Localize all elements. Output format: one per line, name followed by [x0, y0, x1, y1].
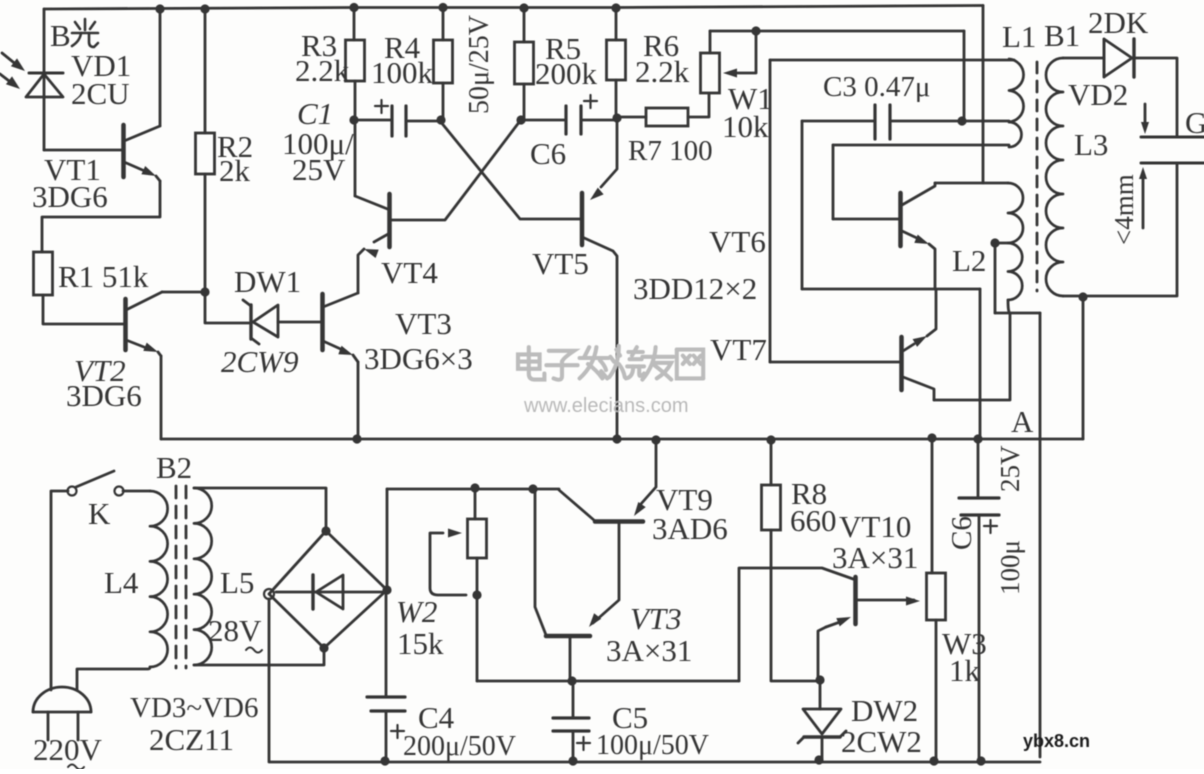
wire VT9 base line: [387, 488, 559, 491]
svg-text:2CU: 2CU: [71, 76, 130, 111]
node VT3 emitter on rail: [352, 434, 361, 443]
label C1: [297, 96, 333, 131]
svg-text:L4: L4: [104, 565, 139, 600]
wire L5 bottom to bridge: [194, 648, 324, 665]
node R2/VT2/DW1 junction: [200, 287, 209, 296]
label B-light: [50, 18, 98, 53]
label VT2: [74, 353, 126, 388]
label R6 value: [635, 54, 690, 89]
svg-text:220V: 220V: [33, 732, 103, 767]
label L3: [1074, 127, 1108, 162]
resistor R6 2.2k: [607, 40, 626, 80]
wire L5 top to bridge: [194, 487, 326, 490]
wire VT5 base cross-coupling to R4/C1 node: [440, 121, 582, 219]
node bridge right: [382, 585, 391, 594]
wire R4 to node: [442, 83, 445, 120]
potentiometer W2 15k: [468, 519, 487, 558]
label C5 value: [596, 730, 709, 761]
label C6 output rotated: [946, 516, 978, 550]
label W2: [396, 594, 437, 629]
capacitor C6 50u/25V: [521, 95, 616, 134]
wire emitters line down to output rail: [979, 289, 982, 439]
node R5/C6/VT4 junction: [516, 115, 525, 124]
capacitor C6 100u/25V output: [959, 439, 999, 761]
label VT3: [395, 306, 452, 341]
node L2 tap: [990, 238, 999, 247]
light arrow 1 into VD1: [2, 53, 25, 71]
transistor VT5: [582, 118, 617, 438]
wire bottom negative rail: [270, 761, 1040, 764]
svg-text:G: G: [1185, 105, 1204, 140]
transistor VT7 3DD12: [770, 290, 936, 400]
label VD2: [1068, 77, 1128, 112]
wire switch to L4: [123, 490, 150, 493]
label 2CW2: [841, 724, 922, 759]
wire plug left to switch: [51, 491, 68, 690]
wiper of W1: [723, 31, 756, 78]
svg-text:B1: B1: [1044, 18, 1080, 53]
node W1 wiper tie: [751, 26, 760, 35]
wire gap to L3 bottom: [1176, 163, 1179, 295]
svg-text:2CZ11: 2CZ11: [149, 722, 234, 757]
svg-text:1k: 1k: [949, 653, 981, 688]
wire R6 to node: [615, 80, 618, 117]
transistor VT10 3AX31: [818, 577, 920, 679]
label 4mm rotated: [1109, 174, 1139, 245]
capacitor C3 0.47u: [802, 105, 1009, 139]
node C3/W1 junction: [957, 116, 966, 125]
label VD3-VD6: [130, 692, 258, 724]
wire VT4 base cross-coupling to R5/C6 node: [390, 121, 520, 220]
wire VD1 to VT1 base: [44, 149, 122, 152]
transistor VT4: [355, 194, 390, 293]
node L3 bottom: [1078, 292, 1087, 301]
label R3 value: [295, 53, 350, 88]
wire W1 line down to C3 node: [963, 31, 966, 120]
label A: [1011, 404, 1034, 439]
node W2 bottom junction: [472, 590, 481, 599]
svg-text:200k: 200k: [535, 56, 598, 91]
svg-text:VT4: VT4: [381, 255, 438, 290]
svg-text:100μ/50V: 100μ/50V: [596, 730, 709, 761]
node C6 top on rail: [973, 434, 982, 443]
diode VD2 2DK: [1104, 39, 1134, 77]
transistor VT6 3DD12: [833, 183, 935, 289]
svg-text:VT10: VT10: [839, 509, 911, 544]
wire VD2 to gap electrode: [1134, 58, 1177, 137]
gap distance arrow lower: [1139, 167, 1147, 228]
svg-text:<4mm: <4mm: [1109, 174, 1139, 245]
svg-text:A: A: [1011, 404, 1034, 439]
watermark elecfans chinese: [518, 346, 703, 380]
node VT3 collector junction: [567, 676, 576, 685]
label G: [1185, 105, 1204, 140]
resistor R1 51k: [34, 252, 53, 295]
svg-text:10k: 10k: [722, 109, 769, 144]
zener diode DW1 2CW9: [243, 300, 321, 344]
label W1: [728, 81, 773, 116]
svg-text:VT3: VT3: [630, 601, 682, 636]
wire W1 top line: [710, 30, 964, 33]
winding L1 of B1: [1009, 59, 1024, 147]
wire VT6 collector to rail/L2 top: [935, 182, 1008, 185]
label B2: [156, 450, 192, 485]
svg-text:3A×31: 3A×31: [606, 633, 692, 668]
resistor R7 100: [617, 94, 709, 126]
wire R5 to node: [523, 84, 526, 120]
winding L5 of B2: [194, 488, 212, 665]
wire W2 node down to regulator line: [476, 595, 479, 681]
wire regulator line C5 node: [477, 568, 856, 681]
node R2 top on rail: [200, 4, 209, 13]
wire R3 to C1: [354, 81, 357, 120]
svg-text:R1 51k: R1 51k: [58, 259, 149, 294]
wire W3 bottom to rail: [935, 620, 938, 761]
wire VD1 anode from top rail: [43, 9, 46, 72]
transistor VT3: [323, 293, 359, 362]
wire bridge right down to C4: [385, 590, 388, 697]
wire VT1 emitter to R1: [42, 181, 160, 252]
watermark ybx8.cn: [1023, 731, 1090, 751]
node R6 top on rail: [611, 3, 620, 12]
core of B1: [1036, 62, 1039, 291]
transistor VT2 3DG6: [126, 292, 163, 356]
svg-text:3DD12×2: 3DD12×2: [633, 271, 757, 306]
wire bridge top to L5 line: [325, 489, 328, 531]
svg-text:R7 100: R7 100: [628, 135, 713, 167]
svg-text:200μ/50V: 200μ/50V: [403, 731, 516, 762]
svg-text:C4: C4: [418, 700, 455, 735]
spark gap electrode top: [1141, 136, 1204, 139]
label R5: [545, 31, 581, 66]
label 28V: [208, 613, 262, 653]
label VT10: [839, 509, 911, 544]
wire L2 tap down: [995, 243, 1007, 313]
svg-text:DW1: DW1: [234, 264, 301, 299]
svg-text:L1: L1: [1002, 19, 1036, 54]
wire VT4 collector to C1 node: [354, 121, 357, 196]
label 100u rotated: [995, 540, 1025, 595]
label W3: [942, 626, 987, 661]
switch K: [68, 471, 124, 496]
node W2 top tap: [470, 483, 479, 492]
svg-text:VT6: VT6: [709, 224, 766, 259]
label 3AD6: [652, 511, 728, 546]
label R8: [791, 476, 827, 511]
svg-text:K: K: [88, 496, 111, 531]
node R4 top on rail: [438, 3, 447, 12]
wire common rail of control circuit: [161, 438, 1083, 441]
wire R1 to VT2 base: [43, 295, 124, 324]
wire C3 left down to emitters node: [801, 121, 804, 289]
capacitor C1 100u/25V: [354, 100, 441, 136]
wire R8 to zener node: [771, 530, 820, 681]
label R2: [217, 129, 253, 164]
light arrow 2 into VD1: [0, 74, 20, 89]
label VT7: [710, 332, 767, 367]
node VT9 emitter tap: [651, 435, 660, 444]
svg-text:C6: C6: [946, 516, 978, 550]
label DW1: [234, 264, 301, 299]
svg-text:25V: 25V: [292, 152, 346, 187]
arrow VT9 collector into VT3 emitter: [589, 613, 601, 627]
transistor VT9 3AD6: [559, 440, 656, 623]
transistor VT3 3AX31 pass: [535, 490, 590, 680]
node W3 bottom on rail: [929, 756, 938, 765]
wire supply line to L1 top and VT7 base column: [770, 60, 1014, 362]
potentiometer W3 1k: [927, 573, 946, 620]
wire R5 from rail: [523, 8, 526, 42]
label R3: [301, 28, 337, 63]
svg-text:VT5: VT5: [532, 246, 589, 281]
winding L3 of B1: [1046, 58, 1063, 296]
label 3DG6 VT1: [32, 179, 108, 214]
wire VT3 emitter to rail: [357, 362, 360, 439]
zener diode DW2 2CW2: [798, 680, 846, 759]
wire L2 bottom curve: [1008, 300, 1010, 313]
wire bridge left to negative rail: [268, 599, 271, 762]
resistor R8 660: [762, 485, 781, 530]
svg-text:2CW2: 2CW2: [841, 724, 922, 759]
svg-text:W2: W2: [396, 594, 437, 629]
label C4: [418, 700, 455, 735]
label 3Ax31 VT10: [832, 540, 918, 575]
svg-text:100k: 100k: [371, 55, 434, 90]
label VT9: [656, 482, 713, 517]
label B1: [1044, 18, 1080, 53]
node C5 on bottom rail: [568, 756, 577, 765]
wire R2 to DW1 node: [204, 174, 207, 292]
label VT5: [532, 246, 589, 281]
wire L3 bottom down to A rail: [1082, 297, 1085, 439]
node VT10 emitter / DW2 junction: [815, 675, 824, 684]
label 2k: [219, 153, 251, 188]
label W1 value: [722, 109, 769, 144]
wire L3 top to VD2: [1063, 57, 1104, 60]
svg-text:3DG6×3: 3DG6×3: [364, 341, 473, 376]
svg-text:C3 0.47μ: C3 0.47μ: [823, 71, 930, 103]
resistor R3 2.2k: [346, 40, 365, 81]
svg-text:15k: 15k: [397, 626, 444, 661]
svg-text:L3: L3: [1074, 127, 1108, 162]
gap distance arrow upper: [1141, 104, 1149, 134]
svg-text:ybx8.cn: ybx8.cn: [1023, 731, 1090, 751]
node VT3 base tap: [528, 484, 537, 493]
svg-text:660: 660: [790, 503, 837, 538]
node VT5 emitter on rail: [612, 434, 621, 443]
resistor R5 200k: [515, 42, 534, 84]
label DW2: [851, 693, 918, 728]
wire VT2 emitter down to lower rail: [160, 356, 163, 439]
label R6: [643, 28, 679, 63]
node bridge bottom: [319, 643, 328, 652]
wire L3 bottom junction: [1063, 295, 1177, 298]
label L1: [1002, 19, 1036, 54]
wire VT7 collector to L2 bottom: [934, 314, 1010, 400]
label 50u25V rotated: [464, 15, 495, 114]
node bridge top: [321, 526, 330, 535]
svg-text:3DG6: 3DG6: [66, 378, 142, 413]
label R1 51k: [58, 259, 149, 294]
svg-text:B2: B2: [156, 450, 192, 485]
svg-text:B: B: [50, 18, 71, 53]
label 2CZ11: [149, 722, 234, 757]
label C5: [612, 700, 648, 735]
svg-text:C6: C6: [530, 136, 566, 171]
potentiometer W1 10k: [701, 31, 720, 93]
svg-text:2.2k: 2.2k: [635, 54, 690, 89]
wire emitters common line: [802, 288, 980, 291]
wire R2 from top rail: [204, 9, 207, 133]
label 3DG6 VT2: [66, 378, 142, 413]
svg-text:28V: 28V: [208, 613, 262, 648]
node R8 top on rail: [766, 435, 775, 444]
label C1 value1: [282, 126, 354, 161]
svg-text:VD2: VD2: [1068, 77, 1128, 112]
node C6 bottom on rail: [976, 756, 985, 765]
label C1 value2: [292, 152, 346, 187]
svg-text:2DK: 2DK: [1088, 5, 1149, 40]
ring bridge left: [264, 589, 274, 599]
wire W2 bottom: [476, 558, 479, 595]
wire W3 top: [931, 438, 934, 573]
label L2: [952, 243, 986, 278]
node W3 top on rail: [927, 433, 936, 442]
winding L2 of B1: [1008, 183, 1023, 300]
svg-text:25V: 25V: [995, 445, 1025, 492]
label 660: [790, 503, 837, 538]
label R4: [384, 30, 421, 65]
label 2CW9: [221, 344, 299, 379]
label VT3 lower: [630, 601, 682, 636]
label 2DK: [1088, 5, 1149, 40]
svg-text:VT7: VT7: [710, 332, 767, 367]
wire bridge right up to regulator feed: [386, 489, 389, 590]
svg-text:2.2k: 2.2k: [295, 53, 350, 88]
label 2CU: [71, 76, 130, 111]
label 220V: [33, 732, 103, 770]
label 3Ax31 lower: [606, 633, 692, 668]
wire L2 bottom return to negative rail: [995, 313, 1040, 757]
wire W2 top: [474, 488, 477, 519]
label R5 value: [535, 56, 598, 91]
spark gap electrode bottom: [1141, 162, 1204, 165]
node VT1 collector on rail: [155, 4, 164, 13]
svg-text:L5: L5: [220, 565, 254, 600]
svg-text:VD3~VD6: VD3~VD6: [130, 692, 258, 724]
svg-text:VT3: VT3: [395, 306, 452, 341]
node R3 top on rail: [349, 3, 358, 12]
label 15k: [397, 626, 444, 661]
wire L4 bottom to plug: [77, 667, 150, 690]
svg-text:www.elecians.com: www.elecians.com: [523, 395, 689, 417]
node C4 on bottom rail: [380, 756, 389, 765]
node R5 top on rail: [519, 3, 528, 12]
svg-text:DW2: DW2: [851, 693, 918, 728]
wire VT2 collector to R2 node: [162, 291, 205, 294]
label VT6: [709, 224, 766, 259]
capacitor C4 200u/50V: [367, 697, 405, 761]
label C4 value: [403, 731, 516, 762]
svg-text:L2: L2: [952, 243, 986, 278]
node R6/C6/R7/VT5 junction: [612, 113, 621, 122]
svg-text:3A×31: 3A×31: [832, 540, 918, 575]
label C3 047u: [823, 71, 930, 103]
wire R4 from rail: [442, 8, 445, 41]
svg-text:100μ: 100μ: [995, 540, 1025, 595]
node R4/C1/VT5 junction: [436, 115, 445, 124]
label R4 value: [371, 55, 434, 90]
label R7 100: [628, 135, 713, 167]
label K: [88, 496, 111, 531]
svg-text:2CW9: 2CW9: [221, 344, 299, 379]
transistor VT1 3DG6: [124, 125, 161, 181]
label C6 multivib: [530, 136, 566, 171]
wire node down to DW1: [205, 292, 249, 323]
node R3/C1/VT4 junction: [349, 115, 358, 124]
winding L4 of B2: [150, 491, 168, 667]
wire R8 from rail: [770, 440, 773, 485]
svg-text:2k: 2k: [219, 153, 251, 188]
wire R6 from rail: [615, 8, 618, 40]
svg-text:3DG6: 3DG6: [32, 179, 108, 214]
wire R3 from rail: [353, 8, 356, 41]
bridge rectifier VD3-VD6 2CZ11: [269, 531, 387, 648]
watermark elecfans url: [523, 395, 689, 417]
resistor R4 100k: [434, 40, 453, 83]
label VT4: [381, 255, 438, 290]
label VD1: [71, 48, 131, 83]
wire VT1 collector to top rail: [159, 9, 162, 126]
capacitor C5 100u/50V: [553, 681, 590, 761]
svg-text:50μ/25V: 50μ/25V: [464, 15, 495, 114]
label 1k: [949, 653, 981, 688]
wire L1 bottom to VT6 base column: [833, 145, 1009, 219]
mains plug 220V: [33, 687, 91, 740]
core of B2: [176, 486, 186, 668]
label VT1: [44, 152, 101, 187]
wire top supply rail: [44, 6, 983, 10]
wire top rail right drop to VT6 collector: [982, 6, 985, 184]
label 3DD12x2: [633, 271, 757, 306]
wiper of W2: [430, 529, 466, 596]
label 25V rotated: [995, 445, 1025, 492]
label L4: [104, 565, 139, 600]
resistor R2 2k: [196, 133, 215, 174]
label 3DG6x3: [364, 341, 473, 376]
svg-text:3AD6: 3AD6: [652, 511, 728, 546]
node DW2 on bottom rail: [814, 755, 823, 764]
photodiode VD1 2CU: [26, 73, 63, 150]
label L5: [220, 565, 254, 600]
